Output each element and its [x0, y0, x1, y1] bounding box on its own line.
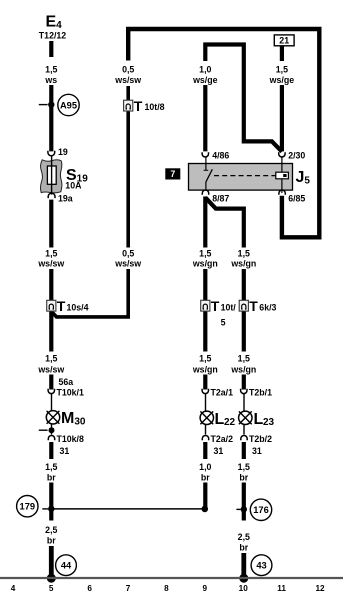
node 179 junction dot [48, 506, 54, 512]
relay J5 pin 6/85 cup [279, 190, 285, 195]
node 179 junction tick [42, 508, 48, 510]
fuse S19 body blob [40, 160, 61, 193]
svg-text:6k/3: 6k/3 [259, 303, 276, 313]
svg-text:21: 21 [279, 36, 289, 46]
svg-text:T: T [134, 98, 143, 114]
lamp L23 symbol [239, 411, 252, 424]
node A95 circle label [58, 94, 79, 115]
svg-text:L: L [254, 411, 264, 428]
svg-text:10t/8: 10t/8 [145, 102, 165, 112]
wire: 2,5 br ground segment right [241, 553, 246, 578]
svg-text:br: br [47, 472, 56, 482]
svg-text:A95: A95 [60, 100, 77, 110]
wire: 2,5 br ground segment [49, 546, 54, 578]
svg-text:10: 10 [239, 584, 249, 593]
svg-text:ws/sw: ws/sw [114, 75, 141, 85]
svg-text:4: 4 [11, 584, 16, 593]
svg-text:1,0: 1,0 [199, 462, 211, 472]
relay J5 internal contact [205, 157, 207, 170]
connector T10t/5 symbol [201, 298, 237, 328]
node 176 junction tick [236, 508, 240, 510]
svg-text:br: br [239, 472, 248, 482]
connector T2a/1 cup [202, 389, 208, 394]
wire: thin link from 179 junction to L22 wire [51, 508, 205, 510]
svg-text:9: 9 [203, 584, 208, 593]
svg-text:T2a/1: T2a/1 [211, 388, 234, 398]
svg-text:br: br [239, 543, 248, 553]
ground point 44 circle [56, 555, 77, 576]
wire: thin lead into M30 [51, 394, 53, 412]
svg-text:0,5: 0,5 [122, 65, 134, 75]
svg-text:10A: 10A [65, 181, 82, 191]
connector T6k/3 symbol [239, 298, 276, 314]
connector T10t/8 symbol [124, 98, 165, 114]
connector T10k/1 cup [48, 389, 54, 394]
svg-text:ws/gn: ws/gn [192, 364, 218, 374]
wire: segment below T2b/2 [242, 442, 246, 459]
svg-text:T2a/2: T2a/2 [211, 434, 234, 444]
wire: right branch down through 176 junction [242, 483, 246, 521]
svg-text:ws/sw: ws/sw [37, 259, 64, 269]
node A95 junction dot [48, 101, 54, 107]
svg-text:1,5: 1,5 [199, 353, 211, 363]
connector T2b/2 cup [241, 436, 247, 441]
svg-text:179: 179 [20, 502, 36, 512]
connector T10k/8 cup [48, 436, 54, 441]
svg-text:ws/gn: ws/gn [230, 364, 256, 374]
wire: 0,5 ws/sw vertical segment through connector T10t/8 [126, 86, 130, 248]
svg-text:1,5: 1,5 [45, 248, 57, 258]
svg-text:176: 176 [253, 505, 269, 515]
svg-text:ws/sw: ws/sw [114, 259, 141, 269]
node 176 circle label [250, 499, 271, 520]
svg-text:23: 23 [263, 417, 275, 428]
svg-text:4/86: 4/86 [212, 151, 229, 161]
svg-text:10t/: 10t/ [221, 303, 237, 313]
svg-text:1,0: 1,0 [199, 65, 211, 75]
wire: thin lead through fuse [51, 156, 53, 195]
svg-text:T2b/2: T2b/2 [249, 434, 272, 444]
wire: thin lead below L22 [205, 425, 207, 435]
fuse S19 element rect [47, 166, 56, 184]
svg-text:31: 31 [60, 446, 70, 456]
wire: segment below T2a/2 [203, 442, 207, 459]
current track 7 black box [165, 168, 180, 179]
terminal 21 box [274, 35, 294, 46]
ground rail [0, 577, 343, 579]
svg-text:5: 5 [49, 584, 54, 593]
svg-text:2,5: 2,5 [45, 525, 57, 535]
wire: jumper from pin 2/30 over to pin 4/86 (1,0 ws/ge) [205, 45, 282, 152]
motor M30 lamp symbol [46, 411, 59, 424]
node 176 junction dot [241, 506, 247, 512]
ground point 43 circle [251, 555, 272, 576]
wire: right branch above T2b/1 [242, 375, 246, 390]
wire: thin lead into L23 [243, 394, 245, 412]
svg-text:6: 6 [87, 584, 92, 593]
relay J5 body [189, 164, 293, 191]
svg-text:5: 5 [221, 318, 226, 328]
svg-text:2,5: 2,5 [238, 532, 250, 542]
svg-text:19: 19 [58, 147, 68, 157]
wire: segment through connector T10s/4 down to next label [49, 269, 53, 352]
wire: 8/87 right branch with diagonal to column 10 [205, 198, 244, 248]
svg-text:ws/gn: ws/gn [192, 259, 218, 269]
svg-text:T: T [249, 298, 258, 314]
relay J5 pin 8/87 cup [202, 190, 208, 195]
svg-text:8: 8 [164, 584, 169, 593]
relay J5 coil box [276, 172, 289, 179]
svg-text:1,5: 1,5 [45, 462, 57, 472]
svg-text:1,5: 1,5 [238, 248, 250, 258]
fuse S19 terminal 19a cup [48, 193, 55, 198]
svg-text:1,5: 1,5 [238, 353, 250, 363]
wire: right branch through T6k/3 [242, 269, 246, 352]
svg-text:31: 31 [214, 446, 224, 456]
wire: top loop conductor from relay pin 6/85 around right and top to column 7 [128, 29, 319, 237]
wire: segment down to pin 2/30 [280, 85, 284, 151]
svg-text:ws/gn: ws/gn [230, 259, 256, 269]
svg-text:ws/sw: ws/sw [37, 364, 64, 374]
svg-text:br: br [201, 472, 210, 482]
svg-text:31: 31 [252, 446, 262, 456]
svg-text:1,5: 1,5 [45, 353, 57, 363]
node 179 circle label [17, 496, 38, 517]
wire: left branch through T10t/5 [203, 269, 207, 352]
svg-text:1,5: 1,5 [199, 248, 211, 258]
svg-text:L: L [215, 411, 225, 428]
svg-text:1,5: 1,5 [276, 65, 288, 75]
node A95 junction tick [39, 104, 48, 106]
wire: segment below 21 box [280, 46, 284, 61]
fuse S19 terminal 19 cup [48, 151, 55, 156]
ground dot on rail [47, 574, 56, 583]
wire: 8/87 left branch down [203, 197, 207, 248]
wire: segment to ground junction 179 [49, 483, 53, 521]
svg-text:1,5: 1,5 [45, 65, 57, 75]
svg-text:T: T [57, 298, 66, 314]
relay J5 pin 2/30 cup [279, 152, 285, 157]
svg-text:ws/ge: ws/ge [192, 75, 218, 85]
svg-text:22: 22 [224, 417, 236, 428]
wire: 0,5 ws/sw lower segment with elbow joining left wire below T10s/4 [51, 269, 128, 317]
svg-text:6/85: 6/85 [288, 193, 305, 203]
svg-text:43: 43 [256, 561, 266, 571]
svg-text:2/30: 2/30 [288, 151, 305, 161]
svg-text:ws: ws [44, 75, 57, 85]
svg-text:br: br [47, 536, 56, 546]
wire: segment below fuse [49, 200, 53, 248]
svg-text:T: T [211, 298, 220, 314]
svg-text:12: 12 [315, 584, 325, 593]
wire: left branch down to junction dot [203, 483, 207, 508]
svg-text:ws/ge: ws/ge [269, 75, 295, 85]
connector T10s/4 symbol [47, 298, 89, 314]
svg-text:8/87: 8/87 [212, 193, 229, 203]
wire: segment below T10k/8 [49, 442, 53, 459]
relay J5 internal pin leads right [281, 157, 283, 172]
wire: left branch above T2a/1 [203, 375, 207, 390]
junction tick and dot below M30 [39, 429, 48, 431]
connector T2b/1 cup [241, 389, 247, 394]
svg-text:7: 7 [126, 584, 131, 593]
svg-text:T10k/8: T10k/8 [57, 434, 84, 444]
svg-text:T2b/1: T2b/1 [249, 388, 272, 398]
svg-text:56a: 56a [59, 377, 74, 387]
wire: segment from label to fuse [49, 85, 53, 151]
ground dot on rail right [239, 574, 248, 583]
relay J5 mechanical dashed link [214, 175, 276, 177]
wire: thin lead below L23 [243, 425, 245, 435]
svg-text:10s/4: 10s/4 [67, 303, 89, 313]
wire: segment above T10k/1 [49, 375, 53, 390]
svg-text:0,5: 0,5 [122, 248, 134, 258]
svg-text:T12/12: T12/12 [39, 31, 66, 41]
svg-text:1,5: 1,5 [238, 462, 250, 472]
wire: thin lead into L22 [205, 394, 207, 412]
relay J5 pin 4/86 cup [202, 152, 208, 157]
svg-text:19a: 19a [58, 193, 73, 203]
wire: thin lead below M30 [51, 424, 53, 435]
wire: segment below E4 [49, 41, 53, 57]
svg-text:44: 44 [61, 561, 72, 571]
connector T2a/2 cup [202, 436, 208, 441]
lamp L22 symbol [200, 411, 213, 424]
svg-text:11: 11 [277, 584, 286, 593]
svg-text:T10k/1: T10k/1 [57, 388, 84, 398]
svg-text:7: 7 [170, 169, 175, 179]
